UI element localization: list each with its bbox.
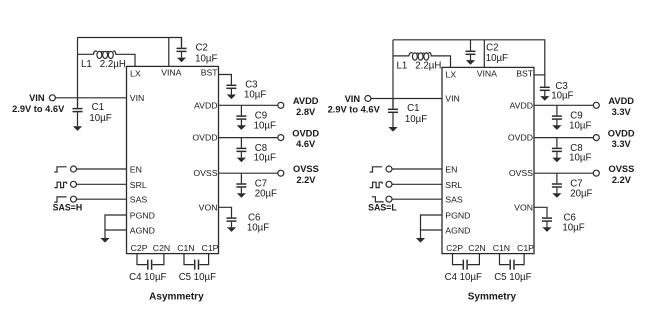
svg-text:20µF: 20µF <box>570 188 592 199</box>
svg-text:OVDD: OVDD <box>292 129 319 139</box>
svg-text:Symmetry: Symmetry <box>468 292 517 303</box>
svg-text:10µF: 10µF <box>247 222 269 233</box>
node SAS terminal (left) <box>71 196 77 202</box>
wire VON (left) <box>219 206 232 209</box>
svg-text:10µF: 10µF <box>89 113 111 124</box>
capacitor C7 (right) <box>552 173 562 198</box>
wire AGND (left) <box>105 230 127 238</box>
node SRL terminal (right) <box>386 181 392 187</box>
SRL pulse waveform symbol (left) <box>54 182 66 187</box>
capacitor C9 (right) <box>552 105 562 130</box>
wire VIN vertical rail (right) <box>392 40 394 108</box>
wire C1N pin down (right) <box>500 254 510 265</box>
wire SAS (left) <box>76 198 126 200</box>
regulator IC U1 (right) <box>442 67 534 253</box>
wire SRL (left) <box>76 183 126 185</box>
svg-text:BST: BST <box>201 68 219 78</box>
svg-text:PGND: PGND <box>130 210 155 220</box>
wire C1P pin down (right) <box>515 254 524 265</box>
svg-text:C2P: C2P <box>446 243 463 253</box>
ground arrow PGND/AGND (left) <box>100 238 109 243</box>
svg-text:C1P: C1P <box>202 243 219 253</box>
node EN terminal (right) <box>386 166 392 172</box>
wire SAS (right) <box>392 198 442 200</box>
capacitor C6 (left) <box>227 207 237 232</box>
wire C1P pin down (left) <box>199 254 208 265</box>
svg-text:OVSS: OVSS <box>193 168 217 178</box>
wire AVDD (left) <box>219 104 278 106</box>
svg-text:VON: VON <box>514 202 533 212</box>
wire EN (right) <box>392 168 442 170</box>
svg-text:2.2V: 2.2V <box>612 175 632 185</box>
svg-text:OVDD: OVDD <box>192 133 217 143</box>
wire C2N pin down (right) <box>468 254 479 265</box>
svg-text:C2N: C2N <box>153 243 170 253</box>
svg-text:3.3V: 3.3V <box>612 107 632 117</box>
svg-text:2.2µH: 2.2µH <box>415 61 441 72</box>
svg-text:C1: C1 <box>92 102 104 113</box>
node OVDD terminal (left) <box>278 135 284 141</box>
svg-text:SAS: SAS <box>445 195 463 205</box>
capacitor C2 (left) <box>177 38 187 63</box>
svg-text:BST: BST <box>516 69 534 79</box>
node AVDD terminal (left) <box>278 102 284 108</box>
wire BST to VIN rail (right) <box>534 74 545 76</box>
wire PGND (left) <box>105 215 127 230</box>
wire AGND (right) <box>421 230 443 238</box>
wire top rail VIN to VINA/BST (right) <box>393 40 545 87</box>
wire OVSS (right) <box>534 172 593 174</box>
SAS step waveform symbol (left) <box>54 197 66 202</box>
node AVDD terminal (right) <box>593 102 599 108</box>
wire VIN vertical rail (left) <box>77 38 79 108</box>
svg-text:10µF: 10µF <box>551 91 573 102</box>
svg-text:AGND: AGND <box>130 226 155 236</box>
svg-text:C4 10µF: C4 10µF <box>129 272 166 283</box>
svg-text:SAS: SAS <box>130 195 148 205</box>
capacitor C8 (left) <box>236 138 246 163</box>
svg-text:LX: LX <box>130 68 141 78</box>
svg-text:2.9V to 4.6V: 2.9V to 4.6V <box>328 105 381 115</box>
wire OVDD (right) <box>534 137 593 139</box>
svg-text:10µF: 10µF <box>569 120 591 131</box>
node VIN terminal (left) <box>49 95 55 101</box>
svg-text:OVSS: OVSS <box>509 168 533 178</box>
wire EN (left) <box>76 168 126 170</box>
svg-text:10µF: 10µF <box>562 222 584 233</box>
wire OVSS (left) <box>219 172 278 174</box>
svg-text:VIN: VIN <box>445 94 459 104</box>
capacitor C4 (left) <box>148 260 152 270</box>
capacitor C5 (right) <box>510 260 514 270</box>
node VIN terminal (right) <box>365 96 371 102</box>
SRL pulse waveform symbol (right) <box>370 182 382 187</box>
capacitor C2 (right) <box>466 40 476 65</box>
ground arrow PGND/AGND (right) <box>416 238 425 243</box>
wire VINA drop (left) <box>168 38 170 67</box>
capacitor C4 (right) <box>463 260 467 270</box>
svg-text:C1N: C1N <box>177 243 194 253</box>
wire VON (right) <box>534 206 547 209</box>
SAS step waveform symbol (right) <box>372 197 384 202</box>
svg-text:OVSS: OVSS <box>293 164 319 174</box>
svg-text:AVDD: AVDD <box>194 100 218 110</box>
capacitor C8 (right) <box>552 138 562 163</box>
svg-text:SRL: SRL <box>445 180 462 190</box>
svg-text:10µF: 10µF <box>569 153 591 164</box>
svg-text:2.8V: 2.8V <box>296 107 316 117</box>
svg-text:AGND: AGND <box>445 226 470 236</box>
node OVSS terminal (right) <box>593 170 599 176</box>
svg-text:L1: L1 <box>397 61 408 72</box>
svg-text:10µF: 10µF <box>405 114 427 125</box>
capacitor C1 (right) <box>388 99 398 132</box>
wire SRL (right) <box>392 183 442 185</box>
svg-text:LX: LX <box>446 70 457 80</box>
svg-text:4.6V: 4.6V <box>296 139 316 149</box>
EN step waveform symbol (right) <box>370 167 382 172</box>
svg-text:10µF: 10µF <box>244 89 266 100</box>
capacitor C1 (left) <box>73 98 83 131</box>
svg-text:VIN: VIN <box>345 94 361 104</box>
inductor L1 (left) <box>78 51 136 66</box>
svg-text:EN: EN <box>445 164 457 174</box>
node OVSS terminal (left) <box>278 170 284 176</box>
wire C1N pin down (left) <box>184 254 194 265</box>
wire VIN terminal to IC (left) <box>55 97 126 99</box>
svg-text:OVSS: OVSS <box>608 164 634 174</box>
inductor L1 (right) <box>393 53 451 68</box>
capacitor C3 (right) <box>540 87 550 100</box>
svg-text:2.2µH: 2.2µH <box>100 59 126 70</box>
svg-text:L1: L1 <box>81 59 92 70</box>
svg-text:AVDD: AVDD <box>293 96 319 106</box>
svg-text:2.9V to 4.6V: 2.9V to 4.6V <box>12 104 65 114</box>
node SRL terminal (left) <box>71 181 77 187</box>
svg-text:C1N: C1N <box>493 243 510 253</box>
svg-text:C2N: C2N <box>468 243 485 253</box>
svg-text:2.2V: 2.2V <box>296 175 316 185</box>
wire AVDD (right) <box>534 104 593 106</box>
capacitor C5 (left) <box>195 260 199 270</box>
svg-text:VINA: VINA <box>161 68 181 78</box>
svg-text:SAS=H: SAS=H <box>53 203 83 213</box>
svg-text:OVDD: OVDD <box>608 129 635 139</box>
svg-text:VIN: VIN <box>29 93 45 103</box>
svg-text:SRL: SRL <box>130 180 147 190</box>
svg-text:SAS=L: SAS=L <box>368 203 397 213</box>
svg-text:OVDD: OVDD <box>508 133 533 143</box>
svg-text:EN: EN <box>130 164 142 174</box>
EN step waveform symbol (left) <box>54 167 66 172</box>
svg-text:10µF: 10µF <box>254 153 276 164</box>
svg-text:20µF: 20µF <box>255 188 277 199</box>
svg-text:VIN: VIN <box>130 93 144 103</box>
svg-text:C5 10µF: C5 10µF <box>494 272 531 283</box>
svg-text:C1P: C1P <box>517 243 534 253</box>
svg-text:VINA: VINA <box>477 69 497 79</box>
svg-text:Asymmetry: Asymmetry <box>149 292 204 303</box>
wire C2P pin down (left) <box>137 254 147 265</box>
svg-text:C2: C2 <box>196 42 208 53</box>
node OVDD terminal (right) <box>593 135 599 141</box>
capacitor C7 (left) <box>236 173 246 198</box>
node EN terminal (left) <box>71 166 77 172</box>
svg-text:3.3V: 3.3V <box>612 139 632 149</box>
wire VIN terminal to IC (right) <box>371 98 442 100</box>
svg-text:10µF: 10µF <box>254 120 276 131</box>
svg-text:VON: VON <box>199 202 218 212</box>
svg-text:C4 10µF: C4 10µF <box>445 272 482 283</box>
wire top rail VIN to VINA/C2 (left) <box>78 38 182 48</box>
node SAS terminal (right) <box>386 196 392 202</box>
svg-text:C2P: C2P <box>131 243 148 253</box>
svg-text:PGND: PGND <box>445 210 470 220</box>
capacitor C3 (left) <box>226 75 236 100</box>
svg-text:10µF: 10µF <box>486 53 508 64</box>
wire BST (left) <box>219 74 232 77</box>
svg-text:C5 10µF: C5 10µF <box>179 272 216 283</box>
regulator IC U1 (left) <box>127 66 219 253</box>
svg-text:C1: C1 <box>407 103 419 114</box>
wire PGND (right) <box>421 215 443 230</box>
capacitor C9 (left) <box>236 105 246 130</box>
svg-text:AVDD: AVDD <box>510 100 534 110</box>
wire VINA drop (right) <box>483 40 485 68</box>
svg-text:10µF: 10µF <box>195 53 217 64</box>
wire OVDD (left) <box>219 137 278 139</box>
capacitor C6 (right) <box>542 207 552 232</box>
wire C2N pin down (left) <box>153 254 164 265</box>
wire C2P pin down (right) <box>453 254 463 265</box>
svg-text:AVDD: AVDD <box>608 96 634 106</box>
